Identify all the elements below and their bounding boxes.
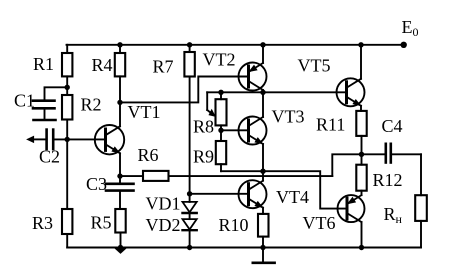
diode VD1 <box>183 194 197 213</box>
transistor VT5 <box>337 78 365 106</box>
node R11-R12-C4 junction <box>359 152 364 157</box>
capacitor C2 <box>47 130 68 149</box>
node R8-R9 junction <box>218 128 223 133</box>
wire VT2 emitter to rail <box>262 45 264 63</box>
svg-text:VT1: VT1 <box>128 102 161 122</box>
diode VD2 <box>183 213 197 248</box>
capacitor C1 <box>33 87 67 120</box>
resistor R6 <box>120 171 332 181</box>
wire VT1 emitter <box>119 153 121 176</box>
wire bottom rail <box>67 247 421 249</box>
wire VT2 collector <box>262 90 264 92</box>
resistor R10 <box>258 214 269 248</box>
capacitor C3 <box>106 176 134 209</box>
resistor R9 <box>216 130 226 171</box>
wire top supply rail <box>67 44 404 46</box>
wire VD1 junction to VT4 base <box>190 193 249 195</box>
wire input junction to VT1 base <box>67 138 105 140</box>
resistor R5 <box>115 209 125 248</box>
resistor R8 <box>216 92 227 130</box>
node R8 top junction <box>218 90 223 95</box>
svg-text:C2: C2 <box>39 147 60 167</box>
wire R8 wiper arrow <box>207 110 211 113</box>
svg-text:C3: C3 <box>86 174 107 194</box>
svg-text:R7: R7 <box>153 57 174 77</box>
resistor R1 <box>62 45 72 88</box>
transistor VT2 <box>239 63 267 91</box>
node VT6 rail junction <box>359 245 364 250</box>
svg-text:VD1: VD1 <box>146 194 181 214</box>
wire N1 line R9 bottom to VT6 base <box>221 171 347 208</box>
svg-text:R4: R4 <box>92 55 113 75</box>
node R4 top <box>117 42 122 47</box>
node VT5 rail junction <box>358 42 363 47</box>
resistor R12 <box>356 154 366 195</box>
wire left column to R3 <box>66 139 68 209</box>
wire R8 wiper stem <box>206 92 208 110</box>
resistor R3 <box>62 209 72 248</box>
wire VT6 collector to rail <box>361 222 363 247</box>
node R10 bottom rail junction <box>260 245 265 250</box>
resistor R2 <box>62 87 72 139</box>
svg-text:R3: R3 <box>32 213 53 233</box>
svg-text:C4: C4 <box>382 116 403 136</box>
svg-text:R12: R12 <box>373 170 403 190</box>
svg-text:VT2: VT2 <box>203 50 236 70</box>
ground <box>253 248 275 263</box>
svg-text:R9: R9 <box>193 147 214 167</box>
node R1-R2-C1 junction <box>65 85 70 90</box>
svg-text:R2: R2 <box>81 95 102 115</box>
wire VT1 collector <box>119 102 121 126</box>
svg-text:R8: R8 <box>193 117 214 137</box>
svg-text:VT4: VT4 <box>276 187 309 207</box>
svg-text:R11: R11 <box>316 115 345 135</box>
resistor R7 <box>184 45 194 194</box>
wire input lead <box>33 138 47 140</box>
svg-text:VT3: VT3 <box>272 107 305 127</box>
node R7 top <box>187 42 192 47</box>
resistor R11 <box>356 111 366 154</box>
node E0 terminal <box>401 42 407 48</box>
wire VT3 emitter <box>262 144 264 171</box>
wire VT3 collector <box>262 92 264 117</box>
node R5 bottom rail junction <box>118 245 123 250</box>
resistor RH <box>415 195 427 247</box>
transistor VT1 <box>95 125 124 154</box>
transistor VT6 <box>338 195 365 222</box>
capacitor C4 <box>362 144 422 163</box>
svg-text:C1: C1 <box>14 91 35 111</box>
wire right column to RH <box>420 154 422 195</box>
wire VT4 collector <box>262 171 264 181</box>
svg-text:R6: R6 <box>138 145 159 165</box>
node VD2 bottom rail junction <box>187 245 192 250</box>
svg-text:VD2: VD2 <box>146 215 181 235</box>
svg-text:VT5: VT5 <box>298 56 331 76</box>
node VT2 collector junction <box>260 90 265 95</box>
svg-text:R10: R10 <box>219 215 249 235</box>
node R4-VT1 collector junction <box>117 100 122 105</box>
svg-text:VT6: VT6 <box>303 213 336 233</box>
node N1-VT3 emitter junction <box>260 169 265 174</box>
node input-line junction <box>65 137 70 142</box>
resistor R4 <box>115 45 125 103</box>
node VD1 top junction <box>187 191 192 196</box>
node VT1 emitter junction <box>117 173 122 178</box>
svg-text:R1: R1 <box>33 54 54 74</box>
wire VT5 collector to rail <box>360 45 362 79</box>
input terminal arrow <box>28 137 34 143</box>
wire N2 jog up to C4 junction <box>332 154 361 176</box>
node VT2 emitter rail junction <box>260 42 265 47</box>
transistor VT4 <box>239 180 267 208</box>
wire VT5 emitter to R11 <box>360 106 362 111</box>
transistor VT3 <box>239 117 267 145</box>
wire R8 top net line <box>207 91 346 93</box>
svg-text:R5: R5 <box>91 213 112 233</box>
rail arrow marker below R5 junction <box>115 248 126 253</box>
wire VT1 collector line to VT2 base jog <box>120 77 249 103</box>
wire VT4 emitter to R10 <box>262 208 264 214</box>
wire R8-R9 junction to VT3 base <box>221 129 249 131</box>
